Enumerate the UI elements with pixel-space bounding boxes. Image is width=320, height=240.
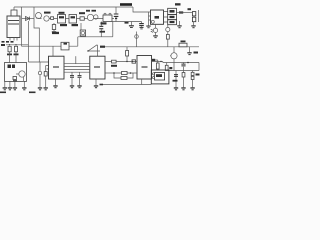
wire vertical left A bbox=[21, 7, 23, 46]
ground right rail 2 bbox=[193, 22, 195, 26]
ground bbox=[70, 85, 74, 86]
resistor R6 bbox=[8, 46, 11, 52]
transistor Q6 small bbox=[136, 32, 138, 47]
resistor R17 bbox=[183, 71, 185, 88]
capacitor C10 bbox=[183, 63, 185, 64]
label 100k bbox=[101, 22, 107, 24]
power bus 2 bbox=[101, 46, 199, 48]
wire far right bbox=[198, 10, 200, 22]
wire U6 pin row bbox=[152, 62, 163, 63]
caption fragment left bbox=[0, 92, 6, 94]
microphone MIC1 terminals bbox=[10, 38, 17, 41]
transistor Q3 bbox=[87, 14, 93, 20]
resistor R16 bbox=[166, 63, 168, 66]
wire mid rail bbox=[112, 21, 142, 23]
LED D4 bbox=[155, 24, 157, 28]
ground below D4 bbox=[153, 35, 158, 36]
LED D3 bbox=[39, 62, 41, 71]
switch S1 contact box bbox=[103, 15, 112, 22]
IC U6 bbox=[137, 56, 152, 80]
wire U6 gnd pin to bottom bus bbox=[103, 79, 151, 85]
transistor Q1 bbox=[36, 13, 42, 19]
label MIC below bbox=[2, 41, 5, 43]
wire lower parallel bbox=[114, 73, 133, 78]
label bbox=[188, 8, 192, 10]
label +9V bbox=[120, 3, 132, 6]
IC block U2 bbox=[58, 15, 66, 24]
label C4 bbox=[72, 24, 79, 26]
ground G1 bbox=[130, 22, 132, 26]
transistor Q5 bbox=[19, 71, 25, 77]
label bottom left of bus bbox=[100, 84, 104, 86]
ground below bus2 bbox=[189, 47, 191, 52]
capacitor C5 bbox=[115, 7, 117, 14]
ground bbox=[44, 87, 48, 88]
wire R6 down bbox=[10, 52, 16, 63]
wire vertical left B bbox=[27, 21, 29, 62]
label R6 bbox=[1, 44, 5, 46]
small box on rail bbox=[132, 60, 136, 63]
ground bbox=[3, 87, 7, 88]
wire vertical crossing bbox=[75, 56, 77, 64]
ground bbox=[38, 87, 42, 88]
diode D1 bbox=[22, 18, 34, 20]
microphone MIC1 top box bbox=[11, 10, 17, 16]
resistor R14 bbox=[166, 35, 169, 40]
buzzer BZ1 bbox=[80, 23, 82, 30]
resistor R7 bbox=[14, 46, 17, 52]
module box M1 bbox=[5, 63, 27, 82]
label bbox=[194, 52, 199, 54]
terminal J1 bbox=[192, 12, 195, 16]
wire U5 ground pin bbox=[95, 79, 97, 85]
resistor R10 bbox=[122, 72, 128, 75]
speaker SP1 inner box bbox=[155, 73, 165, 81]
transformer T1 windings bbox=[164, 12, 168, 23]
wire U5 to U6 row bbox=[105, 72, 137, 74]
wire U6 left pin rail bbox=[105, 61, 137, 63]
resistor R18 bbox=[192, 71, 194, 88]
wire box1 top pin bbox=[52, 46, 54, 56]
IC block U3 bbox=[69, 15, 77, 24]
label R3 bbox=[79, 12, 85, 14]
label left of bus2 bbox=[100, 46, 105, 48]
label R7 bbox=[7, 54, 12, 56]
terminal J2 bbox=[192, 17, 195, 22]
wire bottom right rail bbox=[169, 70, 199, 72]
IC U5 bbox=[90, 56, 105, 79]
ground right rail 1 bbox=[179, 21, 181, 25]
label R12 bbox=[111, 65, 117, 67]
ground bbox=[190, 87, 194, 88]
label top right bbox=[175, 3, 181, 5]
bus wires U4-U5 bbox=[64, 64, 90, 72]
ground bbox=[22, 87, 26, 88]
capacitor C7 bbox=[100, 22, 102, 26]
capacitor C9 bbox=[79, 72, 81, 75]
capacitor C6 to ground bbox=[141, 22, 143, 24]
microphone MIC1 body bbox=[7, 16, 20, 38]
wire to terminals bbox=[177, 12, 193, 14]
label Q4 bbox=[92, 10, 97, 12]
microphone MIC1 inner plates bbox=[8, 21, 19, 25]
transistor Q8 bbox=[167, 25, 169, 28]
resistor R8 bbox=[13, 77, 17, 80]
resistor R11 bbox=[121, 77, 127, 80]
on-bus component right bbox=[179, 43, 187, 47]
microphone MIC1 stub bbox=[13, 7, 15, 10]
label below C7 bbox=[100, 31, 106, 33]
resistor R9 bbox=[45, 66, 47, 72]
ground bbox=[181, 87, 185, 88]
wire U4 ground pin bbox=[55, 79, 57, 85]
resistor R13 vertical bbox=[126, 47, 128, 51]
ground bbox=[174, 87, 178, 88]
resistor R3 bbox=[80, 17, 84, 20]
label C3 bbox=[60, 24, 67, 26]
wire vertical left C bbox=[34, 7, 39, 62]
wire mid rail 2 bbox=[78, 22, 113, 37]
resistor R5 with ground bbox=[53, 23, 55, 25]
crystal Y1 bbox=[22, 45, 62, 47]
ground bbox=[94, 85, 98, 86]
capacitor C11 bbox=[175, 71, 177, 88]
node rail left cluster bbox=[6, 44, 29, 46]
label R2 bbox=[44, 12, 51, 14]
wire Vcc top bus bbox=[14, 6, 133, 8]
label near G1 bbox=[125, 22, 129, 24]
ground bbox=[53, 85, 57, 86]
potentiometer VR1 bbox=[44, 16, 49, 21]
label K1 bbox=[179, 11, 183, 13]
caption fragment right bbox=[29, 92, 36, 94]
ground bbox=[8, 87, 12, 88]
ground at IC left pin bbox=[148, 20, 150, 26]
label XT1 bbox=[52, 32, 59, 34]
label Q3 bbox=[86, 10, 90, 12]
capacitor C8 bbox=[71, 72, 73, 75]
IC U4 bbox=[49, 56, 65, 79]
wire cluster to IC1 bbox=[29, 62, 49, 69]
transistor Q7 bbox=[171, 53, 177, 59]
resistor network right of U6 bbox=[151, 59, 154, 61]
diode D2 diagonal bbox=[88, 45, 100, 56]
resistor R12 bbox=[112, 60, 117, 63]
wire right mid rail bbox=[163, 63, 199, 71]
resistor R15 bbox=[156, 63, 159, 69]
speaker SP1 outer box bbox=[151, 70, 169, 84]
IC U7 bbox=[151, 10, 164, 24]
component inside M1 bbox=[8, 65, 12, 69]
ground bbox=[77, 85, 81, 86]
label above U2 bbox=[59, 12, 65, 14]
wire to relay bbox=[133, 7, 149, 20]
grounds below module bbox=[5, 81, 25, 87]
diode D5 bbox=[51, 17, 54, 20]
ground bbox=[13, 87, 17, 88]
wire top row bbox=[49, 18, 114, 20]
transistor Q4 bbox=[94, 15, 98, 19]
